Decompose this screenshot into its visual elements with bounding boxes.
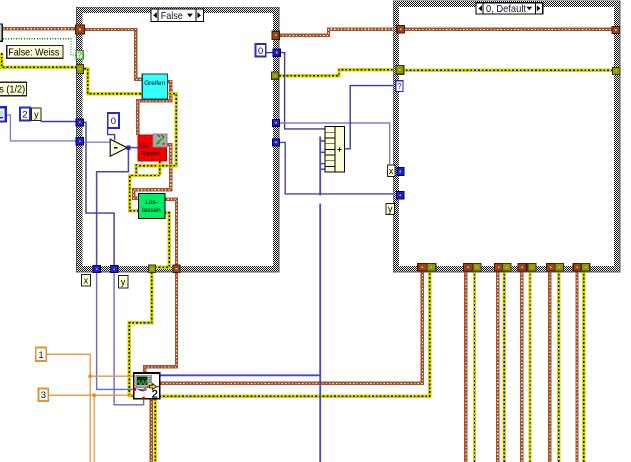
tunnel case2 bottom brown 5 bbox=[547, 264, 556, 272]
wire olive case2 bottom wire 2 bbox=[473, 270, 476, 462]
subtract node bbox=[110, 139, 127, 156]
wire blue 0 tunnel to compound add input 1 bbox=[280, 53, 325, 129]
wire olive from left edge to case1 tunnel bbox=[2, 53, 76, 67]
tunnel case2 selector ? bbox=[396, 81, 403, 92]
svg-text:Greifen: Greifen bbox=[144, 80, 165, 87]
tunnel case2 bottom olive 2 bbox=[473, 264, 481, 272]
wire olive case1 bottom tunnel to node bbox=[129, 272, 152, 396]
wire brown case2 bottom wire 2 bbox=[464, 270, 467, 462]
tunnel case2 bottom olive 5 bbox=[555, 264, 564, 272]
svg-text:?: ? bbox=[397, 82, 402, 91]
wire brown Greifen to DC Raster bbox=[138, 82, 171, 136]
tunnel case1 left olive bbox=[77, 64, 84, 73]
svg-text:y: y bbox=[34, 109, 39, 119]
wire blue hook into compound add at 152.3 bbox=[320, 151, 325, 153]
wire orange branch to node bbox=[90, 375, 134, 377]
case 1 selector label False bbox=[151, 9, 204, 22]
node picture indicator with scope icon bbox=[134, 373, 160, 401]
tunnel case1 bottom brown bbox=[173, 265, 180, 272]
svg-text:lassen: lassen bbox=[142, 207, 161, 214]
svg-text:0, Default: 0, Default bbox=[486, 4, 526, 15]
wire blue node output to vertical bbox=[159, 374, 320, 376]
numeric constant 2 bbox=[20, 108, 30, 121]
wire brown case1 tunnel to Greifen bbox=[84, 30, 143, 80]
wire green boolean to case selector tunnel bbox=[3, 39, 76, 55]
tunnel case1 selector ? bbox=[76, 50, 83, 59]
subVI Greifen bbox=[142, 74, 167, 99]
tunnel case2 bottom olive 1 bbox=[427, 264, 436, 272]
subVI Loslassen bbox=[138, 193, 165, 218]
coercion dot node left bbox=[133, 388, 136, 391]
wire blue array wire vertical lower bbox=[319, 204, 321, 462]
numeric constant 3 orange bbox=[39, 389, 49, 402]
numeric constant 1 orange bbox=[36, 348, 47, 361]
wire brown case2 bottom wire 5 bbox=[548, 270, 551, 462]
svg-text:False: False bbox=[161, 11, 183, 22]
svg-text:2: 2 bbox=[22, 109, 27, 120]
wire blue subtract output to bottom tunnel x bbox=[97, 148, 129, 266]
numeric constant cut at left edge bbox=[0, 107, 6, 121]
svg-text:2: 2 bbox=[152, 389, 158, 401]
svg-text:y: y bbox=[121, 277, 126, 287]
tunnel case2 left blue y bbox=[397, 192, 405, 199]
wire brown case2 bottom wire 3 bbox=[496, 270, 499, 462]
wire brown case2 bottom wire 6 bbox=[575, 270, 578, 462]
wire brown Loslassen to case1 bottom tunnel bbox=[164, 199, 176, 266]
svg-text:Raster: Raster bbox=[141, 150, 161, 157]
svg-text:1: 1 bbox=[38, 350, 43, 361]
wire blue hook into compound add at 169.2 bbox=[320, 168, 325, 170]
wire blue from constants 2,y to case1 tunnel bbox=[41, 121, 77, 123]
wire blue compound add output to case2 selector tunnel bbox=[344, 86, 395, 149]
tunnel case1 bottom olive bbox=[148, 265, 155, 272]
wire brown case2 bottom wire 4 bbox=[520, 270, 523, 462]
svg-text:?: ? bbox=[77, 51, 82, 60]
wire blue subtract output to DC Raster bbox=[127, 147, 138, 149]
tunnel case1 right blue upper bbox=[273, 120, 280, 127]
label y below case1 bbox=[118, 276, 127, 289]
wire blue below case1 y to node bottom bbox=[114, 272, 144, 405]
wire brown case1 bottom tunnel to node top bbox=[145, 272, 177, 374]
wire blue hook into compound add at 163.7 bbox=[320, 163, 325, 165]
compound arithmetic add node bbox=[325, 127, 344, 173]
tunnel case1 right olive bbox=[272, 72, 279, 79]
tunnel case2 bottom olive 4 bbox=[528, 264, 536, 272]
tunnel case1 left blue lower bbox=[76, 137, 83, 145]
wire blue below case1 x to node bbox=[97, 272, 135, 389]
svg-text:x: x bbox=[84, 275, 89, 285]
wire olive DC bottom stub bbox=[158, 161, 161, 176]
wire olive case2 bottom wire 3 bbox=[503, 270, 506, 462]
wire olive case1 right tunnel to case2 left tunnel bbox=[279, 70, 396, 76]
tunnel case1 left brown bbox=[76, 25, 85, 34]
wire blue inside case1 to bottom tunnel y bbox=[83, 122, 114, 266]
wire brown node bottom down to edge bbox=[150, 399, 153, 462]
tunnel case2 left olive bbox=[396, 66, 404, 75]
tunnel case2 right brown bbox=[612, 27, 619, 34]
svg-text:0: 0 bbox=[258, 46, 263, 57]
tunnel case2 bottom brown 4 bbox=[518, 264, 526, 272]
wire blue inside case1 to subtract input bbox=[83, 141, 110, 143]
tunnel case1 left blue upper bbox=[76, 119, 83, 126]
boxed control cut off at left edge bbox=[0, 24, 2, 41]
tunnel case1 right brown bbox=[272, 31, 279, 39]
tunnel case2 bottom brown 1 bbox=[418, 264, 427, 272]
wire blue case1 tunnel to case2 y tunnel bbox=[280, 142, 397, 194]
wire olive Loslassen to case1 bottom tunnel bbox=[153, 213, 169, 267]
label x case2 bbox=[387, 165, 395, 177]
tunnel case1 bottom blue x bbox=[93, 266, 100, 273]
tunnel case2 bottom brown 3 bbox=[495, 264, 503, 272]
wire orange constant 1 down bbox=[46, 354, 90, 462]
wire blue constant 0 to case1 right tunnel bbox=[266, 52, 274, 54]
tunnel case2 right olive bbox=[613, 67, 620, 74]
tunnel case2 bottom brown 2 bbox=[464, 264, 473, 272]
wire blue hook into compound add at 140.9 bbox=[320, 140, 325, 142]
wire olive case2 bottom wire 5 bbox=[557, 270, 560, 462]
wire olive across case2 bbox=[402, 69, 614, 72]
coercion dot node bottom bbox=[142, 397, 145, 400]
tunnel case1 right blue lower bbox=[273, 139, 280, 146]
case 2 selector label 0 Default bbox=[476, 3, 543, 15]
wire olive into Loslassen bbox=[130, 176, 160, 211]
svg-text:Los-: Los- bbox=[145, 199, 157, 206]
svg-text:s (1/2): s (1/2) bbox=[0, 85, 25, 96]
tunnel case2 bottom olive 6 bbox=[581, 264, 590, 272]
wire olive case1 tunnel behind Greifen down to DC area bbox=[84, 69, 176, 166]
wire brown case1 right tunnel to case2 left tunnel bbox=[279, 29, 397, 35]
label y small bbox=[32, 108, 41, 120]
svg-text:False: Weiss: False: Weiss bbox=[8, 48, 59, 59]
tunnel case2 bottom olive 3 bbox=[503, 264, 512, 272]
wire blue case1 tunnel to case2 x tunnel bbox=[280, 123, 390, 169]
label y case2 bbox=[386, 203, 394, 214]
case structure 1 border bbox=[77, 7, 280, 272]
numeric constant 0 right bbox=[256, 44, 266, 57]
junction blue subtract output bbox=[126, 146, 130, 150]
wire blue constant 0 to subtract top bbox=[108, 128, 115, 140]
wire olive case2 bottom wire 6 bbox=[582, 270, 585, 462]
wire orange branch 3 to node bbox=[94, 394, 134, 396]
subVI DC Raster bbox=[138, 134, 167, 161]
wire brown from boxed control to case1 left tunnel bbox=[0, 27, 76, 30]
svg-text:DC: DC bbox=[140, 143, 150, 150]
wire olive node bottom down to edge bbox=[154, 399, 157, 462]
svg-text:y: y bbox=[388, 204, 393, 214]
wire brown DC Raster to Loslassen bbox=[134, 145, 171, 199]
label x below case1 bbox=[81, 274, 90, 286]
wire olive node output to case2 bottom tunnel bbox=[159, 270, 429, 396]
numeric constant 0 subtract bbox=[108, 113, 119, 128]
wire brown across case2 bbox=[402, 28, 614, 31]
wire orange constant 3 down bbox=[48, 395, 94, 462]
wire blue from constant 1 to case1 tunnel bbox=[6, 115, 77, 141]
label False: Weiss bbox=[7, 46, 63, 59]
svg-text:3: 3 bbox=[41, 390, 46, 401]
wire brown node output to case2 bottom tunnel bbox=[159, 270, 422, 383]
tunnel case1 right blue 0 bbox=[273, 49, 280, 56]
label s (1/2) bbox=[0, 82, 27, 96]
junction orange 1 bbox=[88, 374, 92, 378]
tunnel case1 bottom blue y bbox=[111, 266, 118, 273]
tunnel case2 bottom brown 6 bbox=[573, 264, 581, 272]
wire olive connector at DC lower left bbox=[135, 164, 138, 176]
svg-text:x: x bbox=[389, 166, 394, 176]
tunnel case2 left blue x bbox=[397, 168, 404, 176]
svg-text:0: 0 bbox=[111, 116, 116, 127]
wire olive case2 bottom wire 4 bbox=[528, 270, 531, 462]
tunnel case2 left brown bbox=[397, 25, 405, 33]
wire blue array wire vertical upper bbox=[319, 137, 321, 196]
case structure 2 border bbox=[393, 1, 620, 272]
junction orange 3 bbox=[92, 393, 96, 397]
